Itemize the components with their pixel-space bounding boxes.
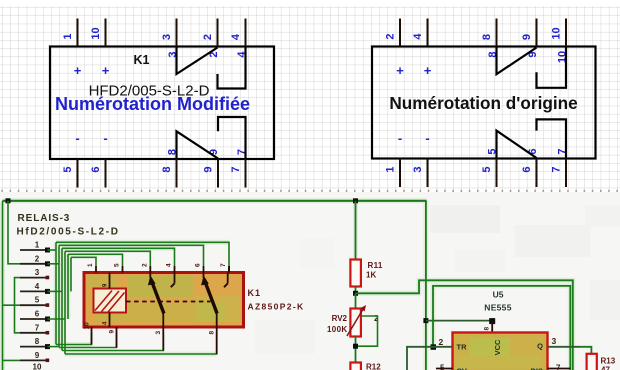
svg-text:-: - xyxy=(75,131,79,146)
svg-text:4: 4 xyxy=(230,33,242,40)
pin 9 (top) xyxy=(521,19,539,58)
contact 2 NO stub xyxy=(224,266,229,287)
relay coil xyxy=(94,289,127,313)
relay contact arm 1 xyxy=(148,273,164,314)
relay top pin stubs xyxy=(96,266,229,273)
svg-text:-: - xyxy=(103,131,107,146)
svg-text:8: 8 xyxy=(484,327,491,331)
svg-text:R13: R13 xyxy=(601,357,616,366)
connector pin 3 xyxy=(20,268,49,279)
pin 8 (top) xyxy=(481,19,499,58)
pin 2 (top) xyxy=(385,19,401,47)
svg-text:9: 9 xyxy=(109,330,116,334)
wire rail to TR column xyxy=(425,201,427,370)
wire loop R11 to DIS (outer) xyxy=(356,280,573,370)
svg-text:K1: K1 xyxy=(248,288,262,298)
U5 pin 3 (Q) wire xyxy=(548,336,592,354)
svg-text:7: 7 xyxy=(35,323,40,332)
svg-text:9: 9 xyxy=(521,34,533,40)
pin 2 (top) xyxy=(202,19,220,58)
wire from rail to pin2 row xyxy=(8,201,20,264)
svg-text:8: 8 xyxy=(209,331,216,335)
svg-text:RV2: RV2 xyxy=(332,314,348,323)
pin 3 (bottom) xyxy=(412,159,428,188)
svg-text:U5: U5 xyxy=(493,290,504,300)
svg-text:9: 9 xyxy=(203,166,215,172)
coil polarity marks + / - (left box) xyxy=(74,63,110,146)
svg-text:CV: CV xyxy=(457,367,467,370)
timer U5 label xyxy=(484,290,512,313)
junction pin 6 xyxy=(45,317,50,322)
svg-text:1: 1 xyxy=(87,263,94,267)
svg-text:1: 1 xyxy=(62,33,74,39)
junction pin 4 xyxy=(45,289,50,294)
schematic capture background (bottom section) xyxy=(0,192,620,370)
svg-text:10: 10 xyxy=(84,322,91,330)
svg-text:K1: K1 xyxy=(134,53,150,67)
connector pin 4 xyxy=(20,282,48,292)
wire RV2 bottom xyxy=(355,337,357,363)
svg-text:DIS: DIS xyxy=(530,367,543,370)
svg-text:8: 8 xyxy=(35,337,40,346)
wire left loop pins 3-7 xyxy=(15,278,21,333)
svg-text:RELAIS-3: RELAIS-3 xyxy=(18,213,71,224)
resistor R13 xyxy=(587,354,616,370)
relay K1 body xyxy=(84,273,244,328)
connector pin 8 xyxy=(20,337,48,347)
pin 9 (bottom) xyxy=(203,149,221,188)
connector pin 7 xyxy=(20,323,49,334)
svg-text:1K: 1K xyxy=(366,271,376,280)
svg-text:10: 10 xyxy=(33,363,42,370)
svg-text:3: 3 xyxy=(35,268,40,277)
wire left connections rows 5 and 9 xyxy=(3,305,21,360)
svg-text:3: 3 xyxy=(155,331,162,335)
relay bottom pin numbers 10 9 3 8 xyxy=(84,322,216,335)
svg-text:+: + xyxy=(102,63,110,78)
wires relay bottom nest xyxy=(56,333,217,354)
top contact 3-2-4 (modified) xyxy=(177,47,246,89)
junction at rail left xyxy=(6,198,11,203)
connector pin 2 xyxy=(20,254,48,264)
svg-text:5: 5 xyxy=(481,166,493,172)
coil polarity marks + / - (right box) xyxy=(396,63,432,146)
svg-text:TR: TR xyxy=(457,343,468,352)
svg-text:7: 7 xyxy=(551,166,563,172)
wire VCC to R11 xyxy=(355,201,357,260)
connector pin 1 xyxy=(20,241,48,251)
svg-text:7: 7 xyxy=(556,364,561,370)
svg-text:R12: R12 xyxy=(366,363,381,370)
pin 5 (bottom) xyxy=(481,148,499,187)
svg-text:9: 9 xyxy=(35,351,40,360)
pin 10 (top) xyxy=(90,19,106,47)
bottom contact 5-6-7 (original) xyxy=(497,119,567,158)
svg-text:8: 8 xyxy=(481,34,493,40)
svg-text:VCC: VCC xyxy=(493,339,502,355)
wire inner loop TR to THR xyxy=(433,286,570,370)
potentiometer RV2 xyxy=(327,293,379,336)
pin 7 (bottom) xyxy=(551,148,569,187)
junction pin 1 xyxy=(45,248,50,253)
svg-text:6: 6 xyxy=(90,166,102,172)
svg-text:10: 10 xyxy=(551,27,563,39)
connector pin 9 xyxy=(20,351,49,362)
junction at TR xyxy=(431,344,437,350)
pin 1 (bottom) xyxy=(385,159,401,188)
pin 4 (top) xyxy=(230,19,248,58)
resistor R11 xyxy=(350,260,382,287)
svg-text:2: 2 xyxy=(35,254,40,263)
pin 5 (bottom) xyxy=(62,159,78,188)
svg-text:7: 7 xyxy=(230,166,242,172)
junction pin 2 xyxy=(45,261,50,266)
pin 1 (top) xyxy=(62,19,78,47)
svg-text:6: 6 xyxy=(195,263,202,267)
pin 10 (top) xyxy=(551,19,569,64)
bottom contact 8-9-7 (modified) xyxy=(177,117,246,159)
wire R11 bottom xyxy=(355,287,357,294)
svg-text:+: + xyxy=(424,63,432,78)
relay top pin numbers 1 5 2 4 6 7 xyxy=(87,263,227,267)
net VCC rail xyxy=(3,200,427,202)
svg-text:HfD2/005-S-L2-D: HfD2/005-S-L2-D xyxy=(17,227,120,238)
svg-text:3: 3 xyxy=(412,166,424,172)
wire stubs column to bundle xyxy=(48,250,66,347)
wire bundle verticals xyxy=(56,242,71,354)
relay body outline K1 (modified) xyxy=(50,47,274,160)
pin 6 (bottom) xyxy=(521,148,539,187)
svg-text:1: 1 xyxy=(385,166,397,172)
svg-text:NE555: NE555 xyxy=(484,303,512,313)
svg-text:7: 7 xyxy=(220,263,227,267)
svg-text:2: 2 xyxy=(141,263,148,267)
wire glow (compression smear) xyxy=(3,201,573,370)
junction pin 8 xyxy=(45,344,50,349)
U5 pin 8 stub xyxy=(484,321,493,333)
U5 pin 5 stub xyxy=(436,364,453,370)
grid paper background (top section) xyxy=(0,0,620,192)
svg-text:Numérotation Modifiée: Numérotation Modifiée xyxy=(55,94,250,114)
connector pin 10 xyxy=(33,363,42,370)
svg-text:6: 6 xyxy=(521,166,533,172)
svg-text:5: 5 xyxy=(35,296,40,305)
relay bottom pin stubs xyxy=(92,314,217,355)
svg-text:R11: R11 xyxy=(368,261,383,270)
U5 pin 7 stub xyxy=(548,364,571,370)
junction below R11 xyxy=(353,291,358,296)
contact 1 NO stub xyxy=(171,273,175,288)
pin 6 (bottom) xyxy=(90,159,106,188)
relay body outline (original numbering) xyxy=(372,47,596,159)
svg-text:3: 3 xyxy=(161,34,173,40)
timer U5 body xyxy=(453,333,548,370)
svg-text:5: 5 xyxy=(440,364,445,370)
svg-text:-: - xyxy=(425,131,429,146)
svg-text:3: 3 xyxy=(552,336,557,346)
pin 3 (top) xyxy=(161,19,179,58)
svg-text:10: 10 xyxy=(90,27,102,39)
junction U5 pin 8 xyxy=(489,318,495,324)
svg-text:+: + xyxy=(74,63,82,78)
junction below RV2 xyxy=(353,344,358,349)
pin 7 (bottom) xyxy=(230,149,248,188)
svg-text:Q: Q xyxy=(537,342,543,351)
wire RV2 wiper xyxy=(356,316,378,346)
svg-text:2: 2 xyxy=(439,337,444,347)
svg-text:100K: 100K xyxy=(327,325,348,334)
top contact 8-9-10 (original) xyxy=(497,47,567,88)
coil lead stubs xyxy=(103,273,110,328)
wires relay top nest xyxy=(56,242,229,266)
relay contact arm 2 xyxy=(201,273,217,314)
svg-text:8: 8 xyxy=(161,166,173,172)
svg-text:-: - xyxy=(398,131,402,146)
resistor R12 xyxy=(350,363,381,370)
pin 8 (bottom) xyxy=(161,149,179,188)
junction at R11 top xyxy=(353,198,358,203)
svg-text:4: 4 xyxy=(412,33,424,40)
svg-text:6: 6 xyxy=(35,310,40,319)
svg-text:4: 4 xyxy=(166,263,173,267)
svg-text:AZ850P2-K: AZ850P2-K xyxy=(248,302,305,312)
pin 4 (top) xyxy=(412,19,428,47)
junction TR column / pin8 wire xyxy=(423,318,428,323)
svg-text:1: 1 xyxy=(35,241,40,250)
svg-text:2: 2 xyxy=(202,34,214,40)
svg-text:2: 2 xyxy=(385,33,397,39)
svg-text:+: + xyxy=(396,63,404,78)
relay internal dashed link xyxy=(126,301,211,303)
connector pin 5 xyxy=(20,296,49,307)
svg-text:Numérotation d'origine: Numérotation d'origine xyxy=(389,93,577,113)
wire left edge vertical xyxy=(2,201,4,370)
wire TR left branch xyxy=(407,347,453,370)
svg-text:5: 5 xyxy=(62,166,74,172)
svg-text:4: 4 xyxy=(35,282,40,291)
svg-text:47: 47 xyxy=(601,366,610,370)
connector pin 6 xyxy=(20,310,48,320)
wire to U5 pin 8 xyxy=(426,320,492,322)
svg-text:5: 5 xyxy=(114,263,121,267)
